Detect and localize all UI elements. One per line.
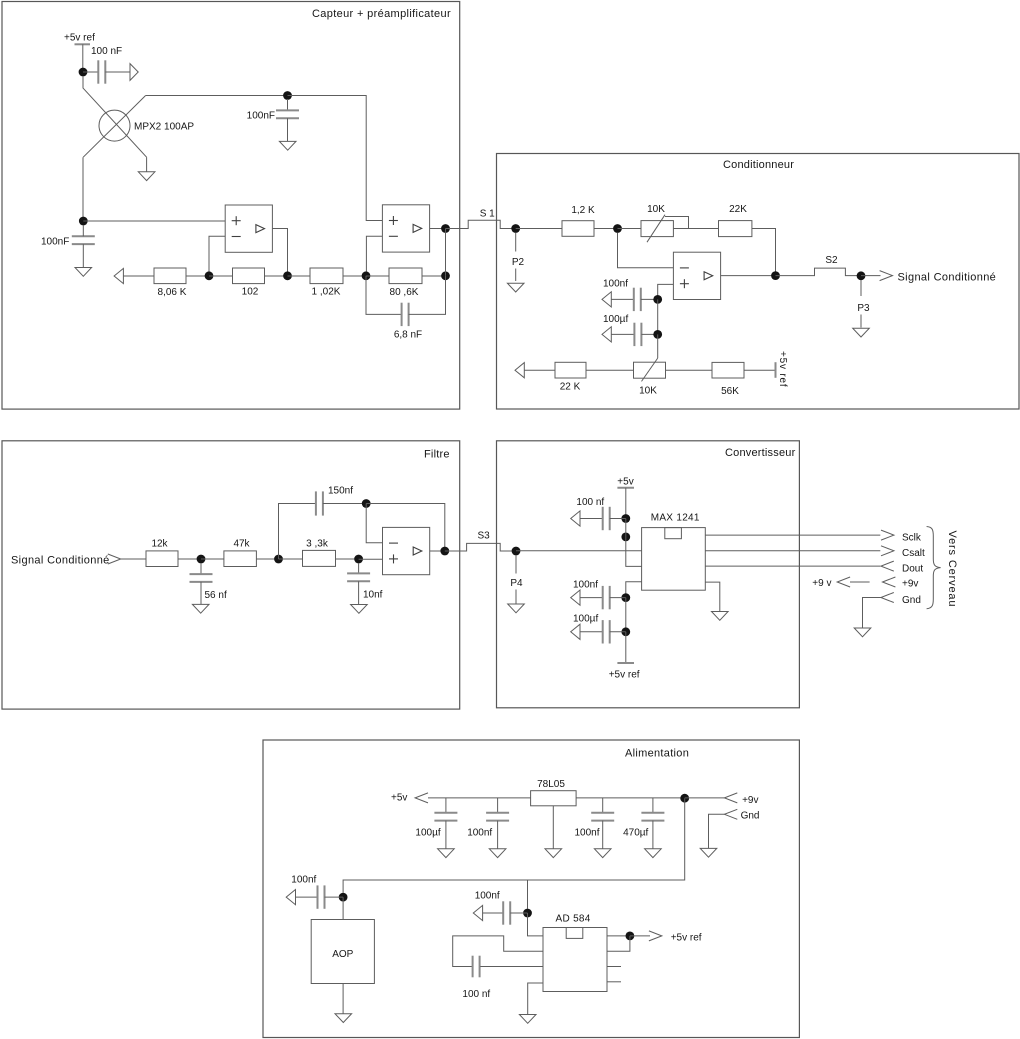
svg-text:80 ,6K: 80 ,6K: [390, 287, 419, 298]
svg-text:100 nf: 100 nf: [576, 497, 604, 508]
wire sensor to ground: [146, 157, 148, 172]
power +5v bar: [617, 487, 634, 489]
svg-text:+5v: +5v: [391, 792, 407, 803]
chevron Sclk: [881, 530, 894, 540]
node junction R4 output: [441, 271, 450, 280]
wire node down to sensor: [82, 76, 84, 88]
wire R2 to node: [265, 275, 288, 277]
wire arrow to C5: [611, 298, 634, 300]
svg-text:AOP: AOP: [332, 949, 353, 960]
wire node to R10: [201, 558, 224, 560]
svg-text:78L05: 78L05: [537, 779, 565, 790]
svg-text:Dout: Dout: [902, 563, 923, 574]
frame block Capteur + preamplificateur: [2, 2, 460, 410]
ground Gnd input: [700, 848, 717, 857]
chevron +9v left: [837, 577, 850, 587]
svg-text:Signal Conditionné: Signal Conditionné: [898, 271, 997, 283]
bridge S3: [445, 543, 516, 551]
svg-text:P2: P2: [512, 257, 525, 268]
wire C11 to node: [610, 597, 626, 599]
wire R5 to node: [594, 228, 618, 230]
wire R3 to node: [343, 275, 366, 277]
resistor R11 3,3k: [303, 550, 336, 566]
wire C1 to arrow: [105, 71, 130, 73]
svg-text:100nf: 100nf: [575, 828, 600, 839]
resistor R5 1,2K: [562, 221, 594, 237]
wire U4 - input: [618, 233, 674, 268]
capacitor C4 6,8nF plates: [401, 303, 403, 326]
wire U2 - input: [209, 236, 225, 275]
svg-text:Gnd: Gnd: [741, 810, 760, 821]
resistor R9 12k: [146, 551, 178, 567]
svg-text:100 nf: 100 nf: [462, 989, 490, 1000]
svg-text:S3: S3: [478, 531, 491, 542]
node junction VDD: [621, 533, 630, 542]
wire tap C14: [497, 798, 499, 813]
capacitor C4 6,8nF feedback left wire: [366, 276, 402, 315]
resistor R2 102: [233, 268, 265, 284]
capacitor C4 right wire: [409, 276, 446, 315]
power +5v ref bar: [617, 662, 634, 664]
svg-text:+5v ref: +5v ref: [64, 33, 95, 44]
ground C9: [351, 605, 368, 614]
sensor bridge diagonal 2: [83, 96, 145, 158]
svg-text:100nf: 100nf: [467, 828, 492, 839]
svg-text:10nf: 10nf: [363, 589, 383, 600]
chip U9 notch: [566, 928, 583, 939]
wire rail right segment: [576, 797, 685, 799]
svg-text:10K: 10K: [639, 386, 657, 397]
ground C15: [594, 849, 611, 858]
node junction C7: [197, 555, 206, 564]
capacitor C7 56nf plates: [190, 573, 213, 575]
wire arrow to R7: [524, 369, 555, 371]
node junction C2: [283, 91, 292, 100]
wire U9 pin4 to ground: [528, 983, 543, 1015]
wire C11 node to C12 node: [625, 598, 627, 632]
wire R4 to node: [422, 275, 446, 277]
power +5v ref bar vertical: [775, 362, 777, 378]
node junction R1-R2: [205, 271, 214, 280]
node junction AOP supply: [339, 893, 348, 902]
block U8 AOP body: [311, 920, 374, 984]
arrow left C10: [571, 511, 580, 526]
wire +5v to node: [625, 488, 627, 519]
op-amp U5: [383, 527, 430, 574]
wire node to chevron: [630, 935, 650, 937]
svg-text:12k: 12k: [151, 539, 168, 550]
wire U4 + input: [658, 284, 674, 299]
capacitor C9 10nf plates: [347, 572, 370, 574]
test point P3 wire lower: [860, 315, 862, 328]
node junction U5 output: [440, 547, 449, 556]
capacitor C16 470uf plates: [641, 812, 664, 814]
svg-text:22K: 22K: [729, 204, 747, 215]
wire AOP to ground: [342, 984, 344, 1014]
frame block Convertisseur: [497, 441, 800, 708]
node junction C6: [653, 330, 662, 339]
node junction C11: [621, 593, 630, 602]
wire tap C13: [445, 798, 447, 813]
wire C2 to ground: [287, 118, 289, 141]
arrow right off-page: [130, 64, 138, 81]
wire junction to op-amp U2 + input: [83, 220, 225, 222]
pin stub U9 right 3: [607, 966, 621, 968]
capacitor C17 100nf plates: [317, 885, 319, 908]
chevron +9v input: [724, 793, 737, 803]
svg-text:100nf: 100nf: [291, 875, 316, 886]
wire node to output arrow: [861, 275, 881, 277]
wire U7 ground pin: [552, 806, 554, 849]
wire arrow to C12: [580, 631, 603, 633]
wire node to R11: [279, 558, 303, 560]
wire C6 to node: [641, 333, 657, 335]
chevron Gnd: [881, 593, 894, 603]
node junction U4 output: [771, 271, 780, 280]
arrow left cap C5: [602, 292, 611, 307]
svg-text:Gnd: Gnd: [902, 595, 921, 606]
wire node to C7: [200, 563, 202, 574]
capacitor C18 100nf plates: [502, 901, 504, 924]
svg-text:1,2 K: 1,2 K: [571, 205, 595, 216]
wire node down to U6 vdd pin: [626, 519, 642, 567]
wire R1 to node: [186, 275, 209, 277]
wire input to R9: [121, 558, 146, 560]
svg-text:+5v ref: +5v ref: [609, 669, 640, 680]
wire R6 to output node: [752, 229, 776, 276]
wire P4 to U6 AIN: [516, 550, 642, 552]
wire Gnd input to ground: [709, 814, 725, 848]
wire R8 to +5v ref bar: [744, 369, 776, 371]
svg-text:Csalt: Csalt: [902, 548, 925, 559]
bridge S2: [776, 268, 862, 276]
resistor R10 47k: [224, 551, 257, 567]
potentiometer RV1 wiper link: [665, 217, 689, 229]
svg-text:P4: P4: [510, 578, 523, 589]
capacitor C11 100nf plates: [602, 586, 604, 609]
chevron Csalt: [881, 546, 894, 556]
potentiometer RV1 diagonal: [647, 215, 665, 243]
arrow left C12: [571, 624, 580, 639]
svg-text:Signal Conditionné: Signal Conditionné: [11, 554, 110, 566]
frame block Alimentation: [263, 740, 799, 1038]
svg-text:1 ,02K: 1 ,02K: [312, 287, 341, 298]
resistor R1 8,06K: [154, 268, 186, 284]
wire Dout: [705, 565, 880, 567]
wire C13 to ground: [445, 821, 447, 849]
svg-text:100µf: 100µf: [603, 314, 628, 325]
sensor U1 MPX2 100AP circle: [99, 110, 130, 141]
wire node to capacitor C1: [83, 71, 98, 73]
svg-text:Sclk: Sclk: [902, 532, 922, 543]
capacitor C10 100nf plates: [602, 507, 604, 530]
svg-text:MPX2 100AP: MPX2 100AP: [134, 122, 194, 133]
potentiometer RV2 10K body: [634, 362, 666, 378]
node junction C12: [621, 627, 630, 636]
frame block Conditionneur: [497, 154, 1020, 410]
wire C6 node to RV2 wiper: [657, 334, 659, 358]
wire U2 output: [272, 229, 287, 276]
svg-text:Filtre: Filtre: [424, 449, 450, 461]
wire node to AOP: [342, 897, 344, 919]
svg-text:22 K: 22 K: [560, 381, 581, 392]
node junction R3-R4: [362, 271, 371, 280]
wire to op-amp U3 + input: [288, 96, 383, 221]
svg-text:Alimentation: Alimentation: [625, 748, 689, 760]
wire Sclk: [705, 534, 880, 536]
wire C15 to ground: [602, 821, 604, 849]
ground U6: [712, 612, 729, 621]
resistor R7 22K: [555, 362, 586, 378]
capacitor C8 right wire: [323, 503, 366, 505]
capacitor C2 100nF plates: [276, 109, 299, 111]
resistor R4 80,6K: [389, 268, 422, 284]
power +5v ref bar: [75, 43, 91, 45]
capacitor C13 100uf plates: [434, 812, 457, 814]
svg-text:102: 102: [242, 287, 259, 298]
wire RV2 to R8: [666, 369, 713, 371]
wire output down to feedback: [445, 229, 447, 276]
op-amp U2: [225, 205, 272, 252]
ground U7: [545, 849, 562, 858]
wire U5 output: [430, 550, 445, 552]
svg-text:MAX 1241: MAX 1241: [651, 513, 700, 524]
wire +5v ref to node: [82, 44, 84, 72]
wire arrow to R1: [123, 275, 154, 277]
wire node to RV1: [618, 228, 642, 230]
chevron Dout: [881, 561, 894, 571]
node junction left cap: [79, 217, 88, 226]
ground P4: [508, 604, 525, 613]
wire U3 output: [430, 228, 446, 230]
wire U4 output: [721, 275, 776, 277]
svg-text:100nf: 100nf: [573, 579, 598, 590]
capacitor C15 100nf plates: [591, 812, 614, 814]
wire node to R2: [209, 275, 233, 277]
svg-text:S2: S2: [825, 255, 838, 266]
ground C13: [438, 849, 455, 858]
op-amp U4: [673, 252, 720, 299]
chevron +5v ref out: [649, 931, 662, 941]
chevron +9v right: [883, 577, 896, 587]
svg-text:+9 v: +9 v: [812, 578, 831, 589]
chevron Signal Conditionne output: [880, 271, 893, 281]
wire C14 to ground: [497, 821, 499, 849]
svg-text:Convertisseur: Convertisseur: [725, 447, 796, 459]
wire rail left segment: [428, 797, 531, 799]
bridge S1: [446, 220, 516, 228]
arrow left C11: [571, 590, 580, 605]
capacitor C3 100nF plates: [72, 235, 95, 237]
svg-text:56K: 56K: [721, 386, 739, 397]
brace Vers Cerveau: [927, 527, 941, 609]
wire P2 to R5: [516, 228, 562, 230]
node junction C10: [621, 514, 630, 523]
svg-text:100nf: 100nf: [475, 891, 500, 902]
svg-text:100nf: 100nf: [603, 278, 628, 289]
svg-text:+9v: +9v: [742, 795, 758, 806]
node junction +5v: [79, 68, 88, 77]
wire node to U5 + input: [359, 558, 383, 560]
resistor R6 22K: [719, 221, 752, 237]
chip U6 MAX 1241 body: [642, 528, 706, 591]
sensor bridge diagonal 1: [83, 88, 147, 157]
wire C19 to U9 pin3: [480, 966, 543, 968]
capacitor C8 150nf left wire: [279, 504, 316, 560]
node junction R5-RV1: [613, 224, 622, 233]
svg-text:8,06 K: 8,06 K: [158, 287, 187, 298]
regulator U7 78L05 body: [531, 791, 577, 806]
wire C5 to node: [641, 298, 658, 300]
resistor R8 56K: [712, 362, 744, 378]
wire R9 to node: [178, 558, 201, 560]
ground P3: [853, 328, 870, 337]
wire node to +9v chevron: [685, 797, 725, 799]
svg-text:+5v ref: +5v ref: [777, 351, 788, 387]
wire U6 to ground right: [705, 582, 720, 611]
wire C7 to ground: [200, 582, 202, 604]
ground U9: [519, 1015, 536, 1024]
wire arrow to C10: [580, 518, 603, 520]
capacitor C8 150nf plates: [315, 491, 317, 515]
svg-text:150nf: 150nf: [328, 485, 353, 496]
capacitor C19 100nf plates: [472, 956, 474, 978]
wire junction to C3: [82, 225, 84, 236]
wire sensor top-right output: [146, 95, 288, 97]
wire Gnd to ground: [863, 598, 881, 628]
ground C7: [192, 604, 209, 613]
wire sensor bottom-left down: [82, 157, 84, 221]
op-amp U3: [382, 205, 429, 252]
wire U9 loop upper: [453, 936, 543, 967]
wire U9 output pin: [607, 935, 630, 937]
wire arrow to C17: [296, 896, 318, 898]
ground under C3: [75, 268, 92, 277]
node junction P3: [857, 271, 866, 280]
potentiometer RV1 10K body: [641, 221, 673, 237]
svg-text:100µf: 100µf: [573, 614, 598, 625]
wire C12 node to +5v ref bar: [625, 632, 627, 663]
pin stub U9 right 4: [607, 981, 621, 983]
svg-text:10K: 10K: [647, 204, 665, 215]
node junction C5: [653, 295, 662, 304]
chip U6 notch: [665, 528, 682, 539]
wire U3 - input: [366, 236, 382, 271]
node junction P2: [511, 224, 520, 233]
wire RV1 to R6: [673, 228, 718, 230]
node junction R2-R3: [283, 271, 292, 280]
chevron Gnd input: [724, 809, 737, 819]
wire node to R3: [288, 275, 311, 277]
node junction +9v input: [680, 794, 689, 803]
ground AOP: [335, 1014, 352, 1023]
svg-text:Conditionneur: Conditionneur: [723, 159, 794, 171]
node junction +5v ref out: [626, 932, 635, 941]
ground under C2: [279, 141, 296, 150]
svg-text:100nF: 100nF: [247, 111, 275, 122]
arrow left bottom chain: [515, 363, 524, 378]
wire C5 node to C6 node: [657, 299, 659, 334]
test point P4 wire upper: [515, 555, 517, 574]
svg-text:S 1: S 1: [480, 209, 495, 220]
capacitor C5 100nf plates: [633, 288, 635, 311]
test point P2 wire lower: [515, 269, 517, 282]
wire C10 to node: [610, 518, 626, 520]
test point P4 wire lower: [515, 590, 517, 604]
wire R10 to node: [257, 558, 279, 560]
node junction R10-R11: [274, 555, 283, 564]
capacitor C1 100nF plates: [97, 60, 99, 83]
wire U6 gnd pin to node chain: [626, 582, 642, 598]
svg-text:P3: P3: [857, 303, 870, 314]
wire Csalt: [705, 550, 880, 552]
ground P2: [507, 283, 524, 292]
svg-text:Capteur + préamplificateur: Capteur + préamplificateur: [312, 8, 451, 20]
wire arrow to C11: [580, 597, 603, 599]
svg-text:+5v: +5v: [617, 476, 633, 487]
svg-text:100 nF: 100 nF: [91, 46, 122, 57]
wire R11 to node: [336, 558, 359, 560]
svg-text:56 nf: 56 nf: [205, 590, 227, 601]
node junction U3 output: [441, 224, 450, 233]
capacitor C14 100nf plates: [486, 812, 509, 814]
ground Gnd connector: [854, 628, 871, 637]
capacitor C6 100uf plates: [633, 323, 635, 346]
arrow left end of resistor chain: [114, 268, 123, 283]
svg-text:100nF: 100nF: [41, 237, 69, 248]
arrow left C18: [473, 905, 482, 920]
wire +9v node down and across: [343, 798, 685, 893]
chip U9 AD 584 body: [543, 928, 607, 992]
wire C9 to ground: [358, 581, 360, 604]
wire C12 to node: [610, 631, 626, 633]
potentiometer RV2 diagonal: [642, 358, 658, 381]
svg-text:AD 584: AD 584: [556, 913, 591, 924]
wire junction to C2: [287, 99, 289, 110]
wire U9 pin6 up to node: [607, 936, 630, 951]
node junction P4: [512, 547, 521, 556]
wire +9v stub: [850, 581, 870, 583]
wire C17 to node: [325, 896, 344, 898]
wire C18 to node: [510, 912, 527, 914]
wire C8 node to U5 - input: [366, 504, 382, 543]
arrow left cap C6: [602, 327, 611, 342]
svg-text:+5v ref: +5v ref: [671, 932, 702, 943]
wire C16 to ground: [652, 821, 654, 849]
ground C16: [645, 849, 662, 858]
ground C14: [489, 849, 506, 858]
wire C3 to ground: [82, 244, 84, 267]
test point P3 wire upper: [860, 280, 862, 296]
arrow left C17: [286, 890, 295, 905]
frame block Filtre: [2, 441, 460, 709]
wire node to C9: [358, 563, 360, 573]
svg-text:47k: 47k: [233, 539, 250, 550]
wire node to R4: [366, 275, 389, 277]
capacitor C12 100uf plates: [602, 620, 604, 643]
svg-text:6,8 nF: 6,8 nF: [394, 330, 422, 341]
wire arrow to C6: [611, 333, 634, 335]
node junction AD584 supply: [523, 909, 532, 918]
svg-text:+9v: +9v: [902, 579, 918, 590]
svg-text:3 ,3k: 3 ,3k: [306, 539, 329, 550]
ground under sensor: [138, 172, 155, 181]
wire arrow to C18: [483, 912, 504, 914]
wire C8 node to output node: [366, 504, 445, 552]
wire branch to AD584: [527, 880, 529, 909]
chevron +5v out: [415, 793, 428, 803]
resistor R3 1,02K: [310, 268, 343, 284]
